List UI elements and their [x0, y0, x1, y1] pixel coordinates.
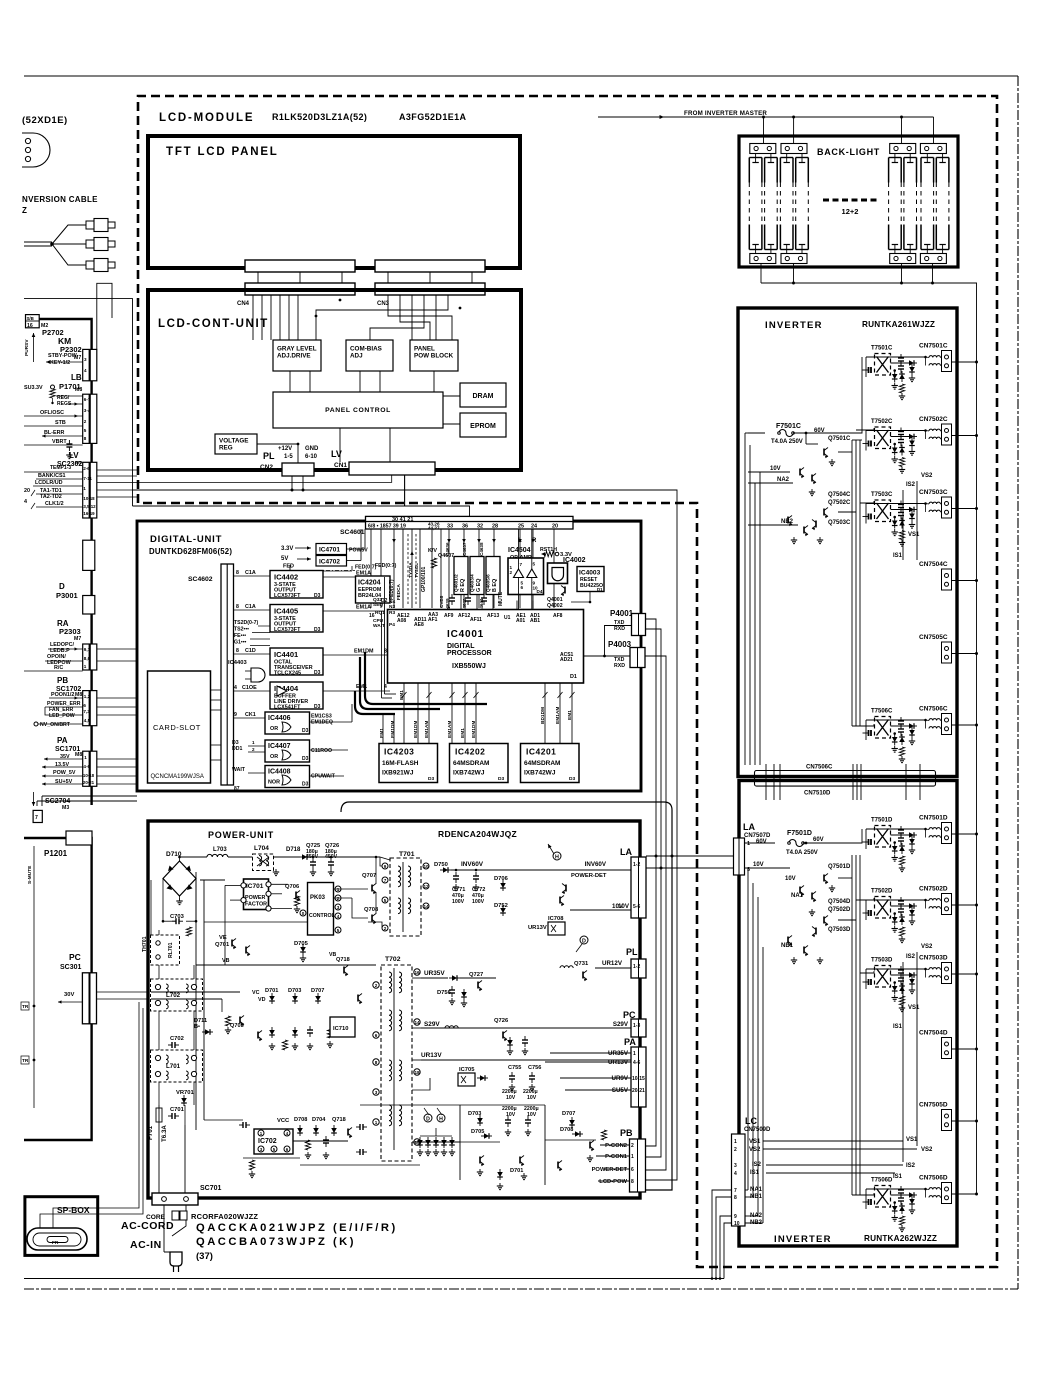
- svg-text:Q7504C: Q7504C: [828, 492, 851, 498]
- junction: [893, 369, 896, 372]
- resistor T7503C: [899, 531, 904, 540]
- wire bus to channels D: [851, 855, 853, 1195]
- svg-text:T4.0A 250V: T4.0A 250V: [771, 439, 803, 445]
- svg-text:PC: PC: [69, 952, 81, 962]
- svg-text:CN7509D: CN7509D: [744, 1127, 771, 1133]
- svg-text:6: 6: [83, 703, 86, 708]
- back-light terminal top 3: [890, 144, 916, 154]
- svg-text:C1A: C1A: [245, 604, 256, 610]
- back-light terminal bottom 2: [781, 254, 807, 264]
- cap VBRT: [68, 440, 70, 444]
- svg-text:VCC: VCC: [277, 1118, 290, 1124]
- wires SC4601 jogs: [350, 529, 371, 543]
- svg-text:U1: U1: [504, 615, 511, 621]
- POWER-UNIT box: [148, 821, 640, 1198]
- svg-text:TR: TR: [22, 1058, 29, 1064]
- wires lamps to bottom terminal 3: [894, 250, 896, 254]
- svg-text:10V: 10V: [527, 1095, 537, 1101]
- svg-text:IXB921WJ: IXB921WJ: [382, 770, 414, 777]
- svg-text:T7501D: T7501D: [871, 818, 893, 824]
- svg-text:RUNTKA261WJZZ: RUNTKA261WJZZ: [862, 320, 935, 329]
- slash marks and labels memory bus: [402, 692, 407, 698]
- svg-text:2: 2: [510, 570, 513, 575]
- svg-text:VBRT: VBRT: [52, 439, 67, 445]
- svg-text:9,7: 9,7: [84, 647, 91, 652]
- wire TXD RXD bus P4001: [646, 619, 656, 1146]
- svg-text:RXD: RXD: [614, 663, 625, 669]
- svg-text:T702: T702: [385, 956, 401, 963]
- svg-text:CLK1/2: CLK1/2: [45, 501, 64, 507]
- svg-text:POWER-DET: POWER-DET: [592, 1167, 628, 1173]
- svg-text:10: 10: [734, 1221, 740, 1227]
- svg-text:T7502D: T7502D: [871, 889, 893, 895]
- svg-text:7: 7: [384, 878, 387, 883]
- svg-text:D4: D4: [537, 589, 543, 594]
- svg-text:P2303: P2303: [59, 627, 81, 636]
- svg-text:NA2: NA2: [750, 1213, 763, 1219]
- svg-text:20-21: 20-21: [83, 780, 95, 785]
- svg-text:0: 0: [302, 911, 305, 916]
- transformer T7502D: [875, 897, 891, 919]
- diodes T7501D right: [909, 832, 914, 838]
- connector SC4601: [366, 516, 574, 529]
- svg-text:Q731: Q731: [574, 961, 589, 967]
- TFT LCD PANEL box: [148, 136, 520, 268]
- CARD-SLOT box: [148, 671, 211, 783]
- INVERTER slave box: [739, 781, 957, 1247]
- svg-text:LCD-MODULE: LCD-MODULE: [159, 112, 254, 124]
- svg-text:IC4403: IC4403: [228, 660, 247, 666]
- svg-text:S29V: S29V: [424, 1021, 440, 1028]
- box EPROM: [460, 413, 506, 437]
- svg-text:Q7501D: Q7501D: [828, 864, 851, 870]
- svg-text:INV60V: INV60V: [461, 861, 484, 868]
- wire CN7502D out: [952, 904, 977, 906]
- svg-text:Q4002: Q4002: [547, 603, 563, 609]
- wires PK03 to FETs: [334, 888, 369, 890]
- junction: [893, 1201, 896, 1204]
- svg-text:D3: D3: [314, 670, 321, 676]
- svg-text:1: 1: [734, 1139, 737, 1145]
- IC4405 box: [270, 605, 323, 633]
- wire bus to channels: [851, 440, 853, 726]
- transformer primary leads: [868, 979, 870, 985]
- wires inverter D verticals: [747, 868, 749, 1190]
- svg-text:L703: L703: [213, 847, 227, 853]
- wires lamps to bottom terminal 4: [926, 250, 928, 254]
- svg-text:IC4408: IC4408: [268, 769, 291, 776]
- transformer primary leads: [868, 730, 870, 736]
- svg-text:AC-IN: AC-IN: [130, 1239, 162, 1251]
- svg-text:IS2: IS2: [906, 482, 916, 488]
- svg-text:CN2: CN2: [260, 464, 273, 471]
- svg-text:LCD-POW: LCD-POW: [599, 1179, 627, 1185]
- box COM-BIAS ADJ: [346, 340, 393, 371]
- thick box P1201 region: [24, 838, 92, 1140]
- svg-text:T4.0A 250V: T4.0A 250V: [786, 850, 818, 856]
- svg-text:POWER: POWER: [245, 895, 265, 901]
- diodes T7503C lower: [892, 521, 898, 526]
- svg-text:(52XD1E): (52XD1E): [22, 115, 68, 126]
- svg-text:P-CON2: P-CON2: [605, 1143, 627, 1149]
- connector KM P2302: [83, 349, 97, 380]
- op-amp triangles: [514, 569, 524, 578]
- lamp 2: [764, 158, 766, 183]
- ballast coils CN7503C: [929, 502, 940, 504]
- svg-text:IS1: IS1: [893, 1174, 903, 1180]
- svg-text:L704: L704: [254, 845, 269, 852]
- svg-text:4: 4: [84, 368, 87, 373]
- wires IC4001 bottom to memories: [403, 683, 405, 743]
- svg-text:1: 1: [633, 1051, 636, 1057]
- wires terminal to lamps 2: [786, 154, 788, 158]
- lamp 6: [903, 158, 905, 183]
- resistor T7502C: [899, 458, 904, 467]
- wires CN3 fanout: [388, 295, 452, 340]
- svg-text:UR35V: UR35V: [608, 1050, 629, 1057]
- svg-text:TS2•••: TS2•••: [234, 627, 249, 633]
- svg-text:D701: D701: [510, 1168, 523, 1174]
- IC4001 box: [388, 610, 584, 684]
- svg-text:9: 9: [234, 712, 237, 718]
- lamp 4: [795, 158, 797, 183]
- svg-text:D708: D708: [560, 1127, 573, 1133]
- wire CN7505C out: [952, 653, 977, 655]
- wire thick main: [39, 319, 91, 805]
- svg-text:EM1: EM1: [567, 710, 573, 720]
- svg-text:NVERSION CABLE: NVERSION CABLE: [22, 195, 98, 204]
- wires terminal to lamps 3: [894, 154, 896, 158]
- svg-text:4-6: 4-6: [83, 764, 90, 769]
- wire panel signal bus: [133, 490, 678, 1180]
- wires bundle into LC pins: [746, 1189, 749, 1191]
- svg-text:CONTROL: CONTROL: [309, 913, 335, 919]
- svg-text:IC710: IC710: [333, 1026, 348, 1032]
- svg-text:OR: OR: [270, 726, 278, 732]
- IC4201 box: [521, 744, 580, 783]
- connector bar CN4 upper: [245, 260, 355, 272]
- capacitors T7503C secondary: [900, 501, 902, 505]
- svg-text:TS2D(0-7): TS2D(0-7): [234, 620, 258, 626]
- connector box S/B 16: [26, 315, 40, 328]
- svg-text:D3: D3: [302, 728, 309, 734]
- wire secondary top: [866, 828, 926, 830]
- svg-text:D750: D750: [434, 862, 448, 868]
- speaker FR: [27, 1228, 87, 1250]
- diodes T7501C right: [909, 360, 914, 366]
- wire CN7503C out: [952, 508, 977, 510]
- wire from cont unit to SC4601: [133, 506, 470, 516]
- svg-text:UR9V: UR9V: [611, 1075, 628, 1082]
- svg-text:T7503D: T7503D: [871, 958, 893, 964]
- op-amp wires through: [518, 529, 520, 609]
- svg-text:5: 5: [84, 428, 87, 433]
- svg-text:100V: 100V: [452, 899, 465, 905]
- diodes T7503C right: [909, 507, 914, 513]
- svg-text:6-7: 6-7: [84, 397, 91, 402]
- svg-text:SC2704: SC2704: [45, 798, 70, 805]
- connector PA SC1701: [83, 751, 97, 786]
- svg-text:D708: D708: [294, 1117, 307, 1123]
- DIGITAL-UNIT box: [137, 521, 641, 791]
- svg-text:TFT LCD PANEL: TFT LCD PANEL: [166, 146, 279, 158]
- svg-text:IC4407: IC4407: [268, 743, 291, 750]
- wire 60V loop: [341, 802, 672, 1190]
- svg-text:LCX573FT: LCX573FT: [274, 627, 301, 633]
- resistor T7501D: [899, 856, 904, 865]
- wires AC input: [158, 1125, 160, 1193]
- svg-text:30 41 21: 30 41 21: [392, 517, 413, 523]
- svg-text:10: 10: [423, 864, 429, 869]
- svg-text:P4: P4: [389, 622, 395, 628]
- svg-text:3.3V: 3.3V: [281, 546, 293, 552]
- svg-text:2: 2: [337, 896, 340, 901]
- svg-text:QACCKA021WJPZ (E/I/F/R): QACCKA021WJPZ (E/I/F/R): [196, 1222, 398, 1234]
- LCD-MODULE dashed outline: [138, 96, 997, 1267]
- svg-text:10V: 10V: [770, 466, 781, 472]
- svg-text:Q708: Q708: [364, 907, 379, 913]
- svg-text:IC4504: IC4504: [508, 547, 531, 554]
- lamp 8: [935, 158, 937, 183]
- svg-text:DIGITAL: DIGITAL: [447, 643, 475, 650]
- diodes T7502D lower: [892, 917, 898, 922]
- components around IC702: [239, 1124, 243, 1126]
- diodes T7502C lower: [892, 448, 898, 453]
- svg-text:KEY-1/2: KEY-1/2: [50, 360, 70, 366]
- wire bundle to digital unit corner: [573, 520, 641, 522]
- svg-text:C4637: C4637: [462, 542, 467, 556]
- diode ladder bottom: [417, 1140, 423, 1145]
- wires to SP-BOX: [53, 1002, 139, 1228]
- wire secondary top: [866, 1188, 926, 1190]
- svg-text:VB: VB: [329, 952, 336, 958]
- transformer T7501D: [875, 826, 891, 848]
- svg-text:87: 87: [234, 786, 240, 792]
- svg-text:DUNTKD628FM06(52): DUNTKD628FM06(52): [149, 547, 232, 556]
- svg-text:R/C: R/C: [54, 665, 63, 671]
- svg-text:14: 14: [423, 904, 429, 909]
- svg-text:D3: D3: [302, 782, 309, 788]
- svg-text:3-4: 3-4: [84, 408, 91, 413]
- IC4408 box: [265, 766, 310, 788]
- transistor Q4001 Q4002: [564, 587, 566, 594]
- svg-text:VS2: VS2: [749, 1147, 761, 1153]
- svg-text:REG: REG: [219, 445, 233, 452]
- svg-text:D1: D1: [570, 674, 577, 680]
- svg-text:5-6: 5-6: [633, 904, 640, 910]
- svg-text:LV: LV: [331, 449, 342, 459]
- connector box on P1201: [66, 831, 92, 845]
- wires LA left: [497, 869, 631, 871]
- svg-text:STB: STB: [55, 420, 66, 426]
- svg-text:M7: M7: [74, 636, 81, 642]
- svg-text:D705: D705: [294, 941, 309, 947]
- wire junction dots: [339, 299, 342, 302]
- svg-text:VS2: VS2: [921, 473, 933, 479]
- svg-text:D3: D3: [302, 756, 309, 762]
- svg-text:3: 3: [337, 905, 340, 910]
- connector bar CN7506C-CN7510D straddling: [755, 771, 936, 787]
- svg-text:FACTOR: FACTOR: [245, 902, 267, 908]
- svg-text:1: 1: [252, 740, 255, 745]
- svg-text:T6.3A: T6.3A: [161, 1125, 168, 1142]
- svg-text:D3: D3: [314, 593, 321, 599]
- svg-text:44,27: 44,27: [428, 526, 440, 531]
- svg-text:4: 4: [337, 914, 340, 919]
- svg-text:10-18: 10-18: [83, 773, 95, 778]
- transformer T7502C: [875, 427, 891, 449]
- transformer primary leads: [868, 910, 870, 916]
- IC710 box: [330, 1017, 355, 1037]
- svg-text:1: 1: [631, 1154, 634, 1160]
- svg-text:EM1DEQ: EM1DEQ: [311, 720, 333, 726]
- wire FED bus: [289, 565, 291, 571]
- svg-text:BD1DM: BD1DM: [540, 707, 546, 724]
- wires lamps to bottom terminal 2: [786, 250, 788, 254]
- wires terminal to lamps 1: [755, 154, 757, 158]
- component cluster mid power: [257, 1032, 259, 1039]
- svg-text:Q7503D: Q7503D: [828, 927, 851, 933]
- dashed signal wires: [407, 534, 409, 604]
- svg-text:PB: PB: [57, 676, 68, 685]
- svg-text:NA2: NA2: [777, 477, 790, 483]
- svg-text:10V: 10V: [785, 876, 796, 882]
- diodes T7506D lower: [892, 1206, 898, 1211]
- svg-text:VB: VB: [222, 958, 230, 964]
- svg-text:SC301: SC301: [60, 964, 82, 971]
- svg-text:AF13: AF13: [487, 613, 499, 619]
- svg-text:TCLCX245: TCLCX245: [274, 671, 301, 677]
- svg-text:2: 2: [252, 747, 255, 752]
- svg-text:PA: PA: [624, 1037, 636, 1047]
- svg-text:C702: C702: [170, 1036, 184, 1042]
- svg-text:RXD: RXD: [614, 626, 625, 632]
- vertical rails left power: [195, 872, 197, 1130]
- svg-text:CN7506C: CN7506C: [806, 765, 833, 771]
- svg-text:1: 1: [84, 664, 87, 669]
- svg-text:TR: TR: [22, 1004, 29, 1010]
- page border top line: [24, 75, 1018, 77]
- wire panel control down: [389, 428, 391, 462]
- BACK-LIGHT box: [739, 136, 958, 267]
- svg-text:2: 2: [375, 983, 378, 988]
- G EQ box: [470, 557, 484, 595]
- svg-text:3: 3: [84, 357, 87, 362]
- svg-text:7-11: 7-11: [83, 476, 92, 481]
- svg-text:PL: PL: [626, 947, 638, 957]
- svg-text:TEMP1-3: TEMP1-3: [50, 465, 71, 471]
- arrow marks on SC4601 wires: [392, 539, 396, 543]
- svg-text:PB: PB: [620, 1128, 633, 1138]
- diodes T7506D right: [909, 1192, 914, 1198]
- svg-text:L702: L702: [166, 992, 181, 999]
- wires PA left: [550, 1052, 631, 1054]
- wire LV bundle: [404, 475, 406, 506]
- svg-text:OFL/OSC: OFL/OSC: [40, 410, 64, 416]
- svg-text:SEQ: SEQ: [373, 602, 383, 608]
- transformer T7503D: [875, 966, 891, 988]
- svg-text:5: 5: [533, 562, 536, 567]
- svg-text:MUTE: MUTE: [498, 591, 504, 606]
- ballast coils CN7501D: [929, 828, 940, 830]
- wires below CN2: [291, 476, 293, 490]
- ballast coils CN7502D: [929, 899, 940, 901]
- IC4402 box: [270, 571, 323, 599]
- svg-text:CN7506C: CN7506C: [919, 706, 948, 713]
- svg-text:20-21: 20-21: [632, 1088, 645, 1094]
- svg-text:R EQ: R EQ: [460, 579, 466, 592]
- svg-text:PANEL CONTROL: PANEL CONTROL: [325, 407, 391, 414]
- wires power mid grid: [200, 879, 225, 881]
- svg-text:NOR: NOR: [268, 780, 280, 786]
- svg-text:S-MUTE: S-MUTE: [27, 865, 33, 884]
- SP-BOX box: [25, 1197, 98, 1256]
- conversion cable lines: [24, 241, 52, 243]
- svg-text:D706: D706: [494, 876, 509, 882]
- svg-text:CN7501D: CN7501D: [919, 815, 948, 822]
- svg-text:Q7504D: Q7504D: [828, 899, 851, 905]
- svg-text:GRAY LEVEL: GRAY LEVEL: [277, 346, 317, 353]
- wires LV to panel bus: [97, 469, 137, 471]
- IC4204 box: [356, 576, 391, 603]
- svg-text:IS2: IS2: [906, 954, 916, 960]
- wires power extra rails: [204, 921, 307, 923]
- svg-text:Q718: Q718: [332, 1117, 346, 1123]
- IC4203 box: [379, 744, 438, 783]
- svg-text:IC4401: IC4401: [274, 650, 298, 659]
- capacitors T7506C secondary: [900, 717, 902, 721]
- svg-text:32: 32: [477, 524, 483, 530]
- wires IC701: [225, 884, 241, 886]
- svg-text:28: 28: [492, 524, 498, 530]
- svg-text:SC4602: SC4602: [188, 576, 213, 583]
- diodes T7501C lower: [892, 374, 898, 379]
- svg-text:TA2-TD2: TA2-TD2: [40, 494, 62, 500]
- wires IC4504 to IC4001: [516, 601, 518, 610]
- svg-text:F701: F701: [147, 1125, 154, 1140]
- back-light terminal top 1: [750, 144, 776, 154]
- capacitors T7502C secondary: [900, 428, 902, 432]
- wire VB row: [224, 935, 226, 965]
- junction: [893, 443, 896, 446]
- junction: [893, 516, 896, 519]
- wires lamps to bottom terminal 1: [755, 250, 757, 254]
- wire bottom NA/NB bus: [24, 1278, 724, 1280]
- label 12+2 dashes: [823, 199, 878, 202]
- connector bar PL CN2: [282, 463, 314, 476]
- svg-text:D718: D718: [286, 847, 301, 853]
- svg-text:IC4202: IC4202: [455, 747, 485, 757]
- box PANEL CONTROL: [273, 392, 443, 428]
- svg-text:C1D: C1D: [245, 648, 256, 654]
- svg-text:UR35V: UR35V: [424, 970, 445, 977]
- resistor T7501C: [899, 384, 904, 393]
- svg-text:CN7502C: CN7502C: [919, 416, 948, 423]
- svg-text:10V: 10V: [506, 1095, 516, 1101]
- svg-text:BACK-LIGHT: BACK-LIGHT: [817, 147, 880, 157]
- svg-text:CARD-SLOT: CARD-SLOT: [153, 723, 201, 732]
- ballast coils CN7501C: [929, 356, 940, 358]
- svg-text:DIGITAL-UNIT: DIGITAL-UNIT: [150, 534, 222, 545]
- wire CN7506D out: [952, 1193, 977, 1195]
- IC701 box: [244, 879, 269, 910]
- svg-text:C701: C701: [170, 1107, 185, 1113]
- svg-text:16: 16: [27, 323, 33, 329]
- svg-text:Q706: Q706: [285, 884, 300, 890]
- wires terminal to lamps 4: [926, 154, 928, 158]
- box PANEL POW BLOCK: [410, 340, 458, 371]
- svg-text:IC701: IC701: [246, 883, 264, 890]
